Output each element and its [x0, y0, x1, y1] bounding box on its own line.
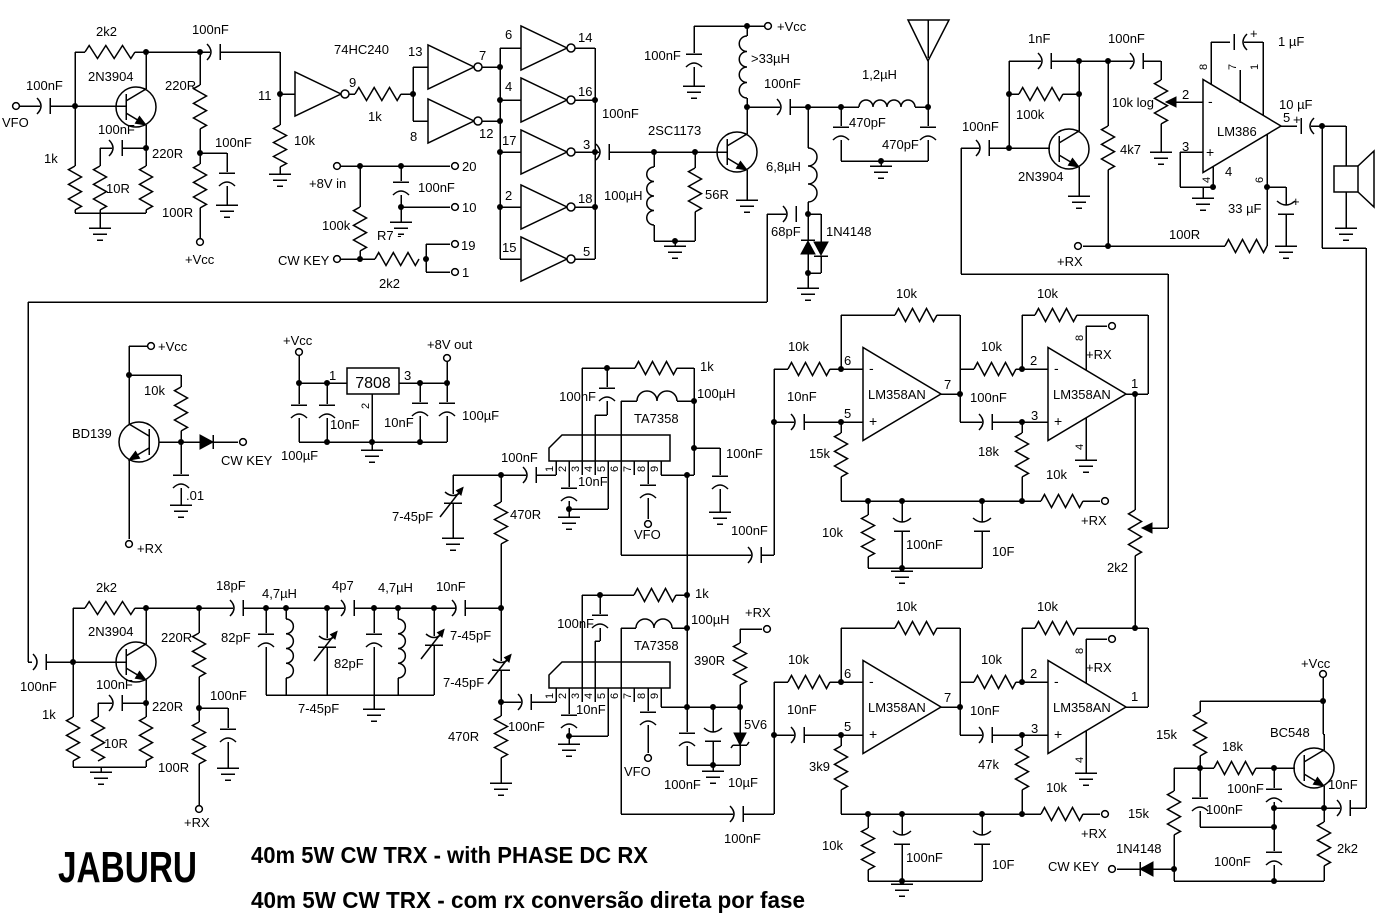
capacitor .01 key filter: [180, 442, 182, 474]
capacitor 100uF reg input: [298, 383, 300, 404]
resistor 220R RX decoupling: [198, 608, 200, 633]
node Q1 collector: [143, 49, 149, 55]
ground 33uF: [1275, 245, 1297, 247]
resistor 1k mixer I: [635, 362, 677, 375]
node +8V in terminal: [334, 163, 341, 170]
svg-text:9: 9: [349, 75, 356, 90]
node U4 tap: [771, 419, 777, 425]
wire pin5 I to ground node: [607, 475, 609, 509]
node U7.A inverting input: [838, 679, 844, 685]
node U7 tap: [771, 732, 777, 738]
svg-text:100nF: 100nF: [764, 76, 801, 91]
resistor 10k U4.A input: [774, 368, 788, 370]
svg-text:220R: 220R: [152, 146, 183, 161]
resistor 2k2 key: [375, 253, 419, 266]
svg-text:1k: 1k: [700, 359, 714, 374]
resistor 10k U7 rail gnd: [867, 814, 869, 828]
resistor 390R RX enable: [739, 685, 741, 707]
node CW KEY terminal E: [240, 439, 247, 446]
ground RX emitter: [100, 767, 102, 772]
node U7.A +input: [838, 732, 844, 738]
svg-text:1N4148: 1N4148: [1116, 841, 1162, 856]
wire 1nF-100k left leg: [1008, 61, 1010, 148]
capacitor 100uF reg output: [446, 403, 448, 405]
svg-text:100nF: 100nF: [906, 537, 943, 552]
node BC548 base: [1271, 765, 1277, 771]
svg-text:10F: 10F: [992, 857, 1014, 872]
svg-text:18k: 18k: [978, 444, 999, 459]
node 100k ends: [1006, 91, 1012, 97]
capacitor 10nF pin8 Q VFO: [647, 702, 649, 711]
capacitor 10nF reg output: [419, 383, 421, 402]
svg-text:100nF: 100nF: [501, 450, 538, 465]
capacitor 100nF VFO coupling: [19, 105, 40, 107]
svg-text:470pF: 470pF: [849, 115, 886, 130]
node CW KEY terminal K: [1109, 866, 1116, 873]
svg-text:+Vcc: +Vcc: [283, 333, 313, 348]
svg-text:6: 6: [844, 353, 851, 368]
resistor 15k sidetone 2: [1174, 767, 1200, 769]
svg-text:+RX: +RX: [1081, 513, 1107, 528]
svg-text:100nF: 100nF: [26, 78, 63, 93]
svg-text:14: 14: [578, 30, 592, 45]
svg-text:1: 1: [462, 265, 469, 280]
wire RX emitter rail: [72, 761, 74, 767]
capacitor 100nF AF couple to pot: [1130, 53, 1134, 69]
svg-text:+: +: [1054, 726, 1062, 742]
capacitor 100nF phase 1: [1273, 768, 1275, 788]
ground U7 rail: [901, 881, 903, 884]
svg-text:5: 5: [1283, 110, 1290, 125]
transistor Q5 2N3904 RX: [116, 642, 156, 682]
resistor 47k U7.B +input: [1021, 735, 1023, 746]
svg-text:11: 11: [258, 88, 272, 103]
resistor 2k2 feedback: [75, 51, 85, 53]
svg-text:10nF: 10nF: [576, 702, 606, 717]
svg-text:470R: 470R: [510, 507, 541, 522]
svg-text:+RX: +RX: [137, 541, 163, 556]
svg-text:+RX: +RX: [1057, 254, 1083, 269]
svg-text:10k: 10k: [822, 838, 843, 853]
inverter U2a: [521, 26, 567, 70]
node +Vcc terminal E: [148, 343, 155, 350]
wire mixer Q bias rail: [687, 764, 740, 766]
capacitor 1uF bypass: [1211, 41, 1230, 43]
wire mixer I top rail: [582, 367, 635, 369]
svg-text:1 µF: 1 µF: [1278, 34, 1304, 49]
svg-text:-: -: [869, 673, 874, 689]
svg-text:10F: 10F: [992, 544, 1014, 559]
svg-text:>33µH: >33µH: [751, 51, 790, 66]
svg-text:8: 8: [1074, 335, 1086, 341]
inverter U1c: [413, 120, 428, 122]
svg-text:10nF: 10nF: [330, 417, 360, 432]
resistor 3k9 under +input U7.A: [840, 735, 842, 746]
wire U7.A feedback down: [959, 628, 961, 707]
wire U4.B pin4: [1085, 418, 1087, 460]
ground 470R Q: [490, 782, 512, 784]
svg-text:TA7358: TA7358: [634, 411, 679, 426]
ground U4 rail: [901, 568, 903, 571]
svg-text:1nF: 1nF: [1028, 31, 1050, 46]
capacitor 100nF mixer I osc: [606, 368, 608, 387]
resistor 1k mixer Q: [634, 589, 676, 602]
svg-text:100nF: 100nF: [664, 777, 701, 792]
svg-text:470R: 470R: [448, 729, 479, 744]
node diode-15k junction: [1171, 866, 1177, 872]
svg-text:+RX: +RX: [1086, 660, 1112, 675]
svg-text:100nF: 100nF: [210, 688, 247, 703]
wire U4.B feedback corner: [1147, 315, 1149, 394]
svg-text:10k: 10k: [896, 599, 917, 614]
node +Vcc terminal A: [197, 239, 204, 246]
node VFO terminal I: [645, 521, 652, 528]
svg-text:8: 8: [636, 466, 648, 472]
svg-text:4k7: 4k7: [1120, 142, 1141, 157]
svg-text:1N4148: 1N4148: [826, 224, 872, 239]
svg-text:100nF: 100nF: [644, 48, 681, 63]
wire U4.A feedback down: [959, 315, 961, 394]
node +Vcc terminal REG: [296, 349, 303, 356]
svg-text:.01: .01: [186, 488, 204, 503]
svg-text:100R: 100R: [162, 205, 193, 220]
node mixer feed split: [498, 605, 504, 611]
svg-text:+: +: [1292, 194, 1300, 209]
wire U7.B pin8: [1085, 639, 1087, 683]
svg-text:56R: 56R: [705, 187, 729, 202]
capacitor 68pF RX coupling: [783, 206, 787, 222]
svg-text:18: 18: [578, 191, 592, 206]
node VFO input terminal: [13, 103, 20, 110]
wire paralleled input bus: [499, 48, 501, 259]
transistor Q2 2SC1173: [717, 132, 757, 172]
transistor Q4 BD139: [119, 422, 159, 462]
svg-text:100µH: 100µH: [697, 386, 736, 401]
resistor 10k U4 interstage: [960, 368, 974, 370]
svg-text:2N3904: 2N3904: [88, 624, 134, 639]
wire U4 bottom rail: [868, 567, 982, 569]
wire Q3 emitter: [1078, 167, 1080, 196]
node +RX terminal D: [1075, 243, 1082, 250]
svg-text:+8V in: +8V in: [309, 176, 346, 191]
svg-text:7-45pF: 7-45pF: [392, 509, 433, 524]
ground pin2 Q: [568, 736, 570, 744]
capacitor 100nF supply bypass A: [200, 152, 227, 154]
diode 5V6 zener: [739, 707, 741, 733]
svg-text:BD139: BD139: [72, 426, 112, 441]
svg-text:10µF: 10µF: [728, 775, 758, 790]
svg-text:5: 5: [596, 693, 608, 699]
svg-text:10nF: 10nF: [787, 702, 817, 717]
node pin10 junction: [398, 204, 404, 210]
ground Q3 emitter: [1068, 195, 1090, 197]
svg-text:7-45pF: 7-45pF: [450, 628, 491, 643]
ground RX bypass: [217, 767, 239, 769]
wire LM386 output pin5: [1280, 125, 1297, 127]
svg-text:220R: 220R: [152, 699, 183, 714]
svg-text:10: 10: [462, 200, 476, 215]
svg-text:+: +: [869, 413, 877, 429]
resistor 2k2 RX feedback: [73, 607, 85, 609]
svg-text:1k: 1k: [695, 586, 709, 601]
node pins 19/1 junction: [423, 256, 429, 262]
svg-text:10k: 10k: [981, 652, 1002, 667]
svg-text:100nF: 100nF: [962, 119, 999, 134]
wire mixer Q right rail: [686, 475, 688, 707]
wire mixer Q bottom out: [621, 813, 733, 815]
svg-text:100R: 100R: [1169, 227, 1200, 242]
node input bus: [497, 64, 503, 70]
capacitor 10nF U7.A +input: [774, 734, 794, 736]
capacitor 82pF filter 1: [265, 608, 267, 633]
svg-text:100nF: 100nF: [724, 831, 761, 846]
ground logic bypass: [390, 221, 412, 223]
svg-text:+Vcc: +Vcc: [777, 19, 807, 34]
svg-text:100nF: 100nF: [1206, 802, 1243, 817]
wire Q1 base: [75, 105, 126, 107]
svg-text:4,7µH: 4,7µH: [262, 586, 297, 601]
svg-text:10R: 10R: [106, 181, 130, 196]
svg-text:10nF: 10nF: [1328, 777, 1358, 792]
resistor 100k feedback: [1019, 88, 1063, 101]
svg-text:3: 3: [583, 137, 590, 152]
wiper arrow 10k log: [1172, 101, 1203, 103]
svg-text:2k2: 2k2: [379, 276, 400, 291]
svg-text:6: 6: [1254, 177, 1266, 183]
svg-text:4: 4: [1074, 444, 1086, 450]
svg-text:40m 5W CW TRX - com rx convers: 40m 5W CW TRX - com rx conversão direta …: [251, 887, 805, 913]
svg-text:3k9: 3k9: [809, 759, 830, 774]
capacitor 10nF pin2 I: [568, 475, 570, 487]
wire pin9 Q output: [660, 702, 662, 707]
wire RX feed down: [766, 214, 768, 302]
svg-text:2k2: 2k2: [1337, 841, 1358, 856]
wire pin6 Q long: [620, 628, 622, 814]
svg-text:6: 6: [505, 27, 512, 42]
svg-text:100nF: 100nF: [906, 850, 943, 865]
ground base network: [674, 241, 676, 246]
capacitor 470pF lowpass 2: [927, 107, 929, 126]
resistor 220R RX emitter: [140, 717, 153, 761]
ground 10k pulldown: [269, 173, 291, 175]
node +8V out terminal: [446, 362, 448, 383]
svg-text:2: 2: [360, 403, 372, 409]
node mixer Q input: [498, 699, 504, 705]
node U7.A output: [941, 706, 960, 708]
svg-text:10k: 10k: [896, 286, 917, 301]
node speaker junction: [1319, 123, 1325, 129]
svg-text:+: +: [1054, 413, 1062, 429]
node antenna junction: [925, 104, 931, 110]
resistor 470R mixer I input: [500, 475, 502, 502]
svg-text:VFO: VFO: [624, 764, 651, 779]
wire Q5 emitter: [145, 680, 147, 717]
svg-text:5: 5: [844, 406, 851, 421]
svg-text:6: 6: [844, 666, 851, 681]
svg-text:15k: 15k: [1128, 806, 1149, 821]
capacitor 18pF filter in: [230, 600, 234, 616]
svg-text:10k: 10k: [981, 339, 1002, 354]
node gate split: [410, 91, 416, 97]
svg-text:7: 7: [622, 693, 634, 699]
resistor 4k7 Q3 load: [1107, 61, 1109, 126]
node Q3 base: [1006, 145, 1012, 151]
wire Q3 collector: [1078, 61, 1080, 131]
svg-text:17: 17: [502, 133, 516, 148]
node U4.A output: [941, 393, 960, 395]
wiper arrow 2k2 phase: [1148, 527, 1168, 529]
svg-text:5V6: 5V6: [744, 717, 767, 732]
capacitor 10nF pin2 Q: [568, 702, 570, 714]
capacitor 470pF lowpass 1: [840, 107, 842, 126]
wire U7.B feedback corner: [1147, 628, 1149, 707]
capacitor 1nF feedback: [1009, 60, 1041, 62]
svg-text:5: 5: [583, 244, 590, 259]
node output bus joints: [592, 97, 598, 103]
svg-text:10nF: 10nF: [436, 579, 466, 594]
svg-text:1: 1: [1131, 689, 1138, 704]
svg-text:VFO: VFO: [2, 115, 29, 130]
svg-text:7: 7: [479, 48, 486, 63]
capacitor 100nF mixer Q osc: [599, 595, 601, 614]
capacitor 100nF phase 2: [1199, 768, 1201, 797]
svg-text:10R: 10R: [104, 736, 128, 751]
potentiometer 10k log volume: [1160, 61, 1162, 80]
svg-text:470pF: 470pF: [882, 137, 919, 152]
svg-text:100nF: 100nF: [557, 616, 594, 631]
resistor 10k U4 rail: [1041, 495, 1083, 508]
svg-text:4,7µH: 4,7µH: [378, 580, 413, 595]
svg-text:2: 2: [1182, 87, 1189, 102]
svg-text:4: 4: [505, 79, 512, 94]
capacitor 4p7 filter couple: [341, 600, 345, 616]
inductor 6,8uH RX tap: [807, 107, 809, 148]
svg-text:18pF: 18pF: [216, 578, 246, 593]
svg-text:LM358AN: LM358AN: [1053, 387, 1111, 402]
wire AF line up: [960, 148, 962, 274]
wire to pin19: [425, 244, 427, 259]
wire +8V rail: [341, 165, 450, 167]
resistor 100k key pullup: [359, 166, 361, 207]
resistor 10k U4.A feedback: [840, 315, 842, 369]
svg-text:100µF: 100µF: [462, 408, 499, 423]
inverter U1b: [413, 66, 428, 68]
ground trimmer I: [442, 537, 464, 539]
node mixer Q rail right: [684, 592, 690, 598]
capacitor 82pF filter 2: [373, 608, 375, 633]
svg-text:100nF: 100nF: [970, 390, 1007, 405]
svg-text:2N3904: 2N3904: [1018, 169, 1064, 184]
svg-text:LM358AN: LM358AN: [868, 700, 926, 715]
wire CW KEY line: [341, 258, 375, 260]
wire Q2 emitter: [746, 170, 748, 200]
resistor 2k2 sidetone emitter: [1323, 808, 1325, 822]
node PA output: [744, 104, 750, 110]
diode 1N4148 key sidetone: [1139, 862, 1141, 876]
svg-text:CW KEY: CW KEY: [278, 253, 330, 268]
svg-text:15k: 15k: [1156, 727, 1177, 742]
diode D2 1N4148 limiter down: [808, 213, 821, 215]
resistor 10k U7.A input: [774, 681, 788, 683]
wire to speaker: [1322, 125, 1346, 127]
svg-text:1k: 1k: [42, 707, 56, 722]
wire mixer I right rail: [693, 368, 695, 475]
capacitor 100nF phase 3: [1273, 827, 1275, 851]
svg-text:+: +: [869, 726, 877, 742]
svg-text:R7 -: R7 -: [377, 228, 402, 243]
wire base network rail: [654, 240, 695, 242]
node pin20 terminal: [452, 163, 459, 170]
wire pin9 I output: [661, 474, 694, 476]
node RX base junction: [70, 659, 76, 665]
op-amp U4.B LM358AN: [1048, 348, 1126, 441]
inductor >33uH collector choke: [739, 36, 747, 98]
node +RX terminal U7.B: [1109, 636, 1116, 643]
wire U1c output pin12: [482, 120, 500, 122]
resistor 10k U4.B feedback: [1021, 315, 1023, 369]
transistor Q3 2N3904: [1049, 129, 1089, 169]
wire LM386 pin1: [1262, 42, 1264, 115]
node +RX terminal H: [196, 806, 203, 813]
node PA base L junction: [651, 149, 657, 155]
svg-text:19: 19: [461, 238, 475, 253]
node filter mid: [371, 605, 377, 611]
wire collector supply branch: [146, 51, 210, 53]
resistor 18k U4.B +input: [1021, 422, 1023, 433]
resistor 10k U7 interstage: [960, 681, 974, 683]
svg-text:2k2: 2k2: [1107, 560, 1128, 575]
svg-text:10nF: 10nF: [384, 415, 414, 430]
capacitor 100nF mixer I input: [523, 467, 527, 483]
node Q5 emitter-220R: [143, 700, 149, 706]
svg-text:2k2: 2k2: [96, 580, 117, 595]
capacitor 10nF interstage U7: [959, 707, 961, 735]
svg-text:100nF: 100nF: [508, 719, 545, 734]
IC U3 pin stubs: [555, 461, 557, 475]
capacitor 100nF mixer Q out: [730, 806, 734, 822]
wire mixer Q top rail: [582, 594, 634, 596]
wire BD139 collector: [128, 375, 130, 424]
resistor 100R supply: [199, 153, 201, 164]
svg-text:1k: 1k: [44, 151, 58, 166]
svg-text:100R: 100R: [158, 760, 189, 775]
wire BC548 emitter: [1323, 786, 1325, 808]
svg-text:CW KEY: CW KEY: [221, 453, 273, 468]
node BD139 base junction: [178, 439, 184, 445]
wire pin5 Q to ground node: [607, 702, 609, 736]
svg-text:+RX: +RX: [1081, 826, 1107, 841]
svg-text:10k: 10k: [144, 383, 165, 398]
ground limiter: [797, 287, 819, 289]
inductor 100uH mixer I: [637, 391, 677, 401]
resistor 220R collector decoupling: [199, 52, 201, 85]
wire U1 pin11 input: [279, 52, 281, 94]
svg-text:5: 5: [844, 719, 851, 734]
svg-text:100µF: 100µF: [281, 448, 318, 463]
svg-text:10k: 10k: [1037, 286, 1058, 301]
capacitor 100nF AF input: [976, 140, 980, 156]
capacitor 10F U4 rail: [981, 501, 983, 522]
wire Q5 collector: [145, 608, 147, 644]
wire emitter bottom rail: [74, 210, 76, 213]
svg-text:10k: 10k: [294, 133, 315, 148]
svg-text:100nF: 100nF: [98, 122, 135, 137]
wire BD139 emitter: [128, 460, 130, 539]
svg-text:3: 3: [1182, 139, 1189, 154]
ground Vcc bypass PA: [683, 85, 705, 87]
svg-text:3: 3: [1031, 408, 1038, 423]
svg-text:TA7358: TA7358: [634, 638, 679, 653]
